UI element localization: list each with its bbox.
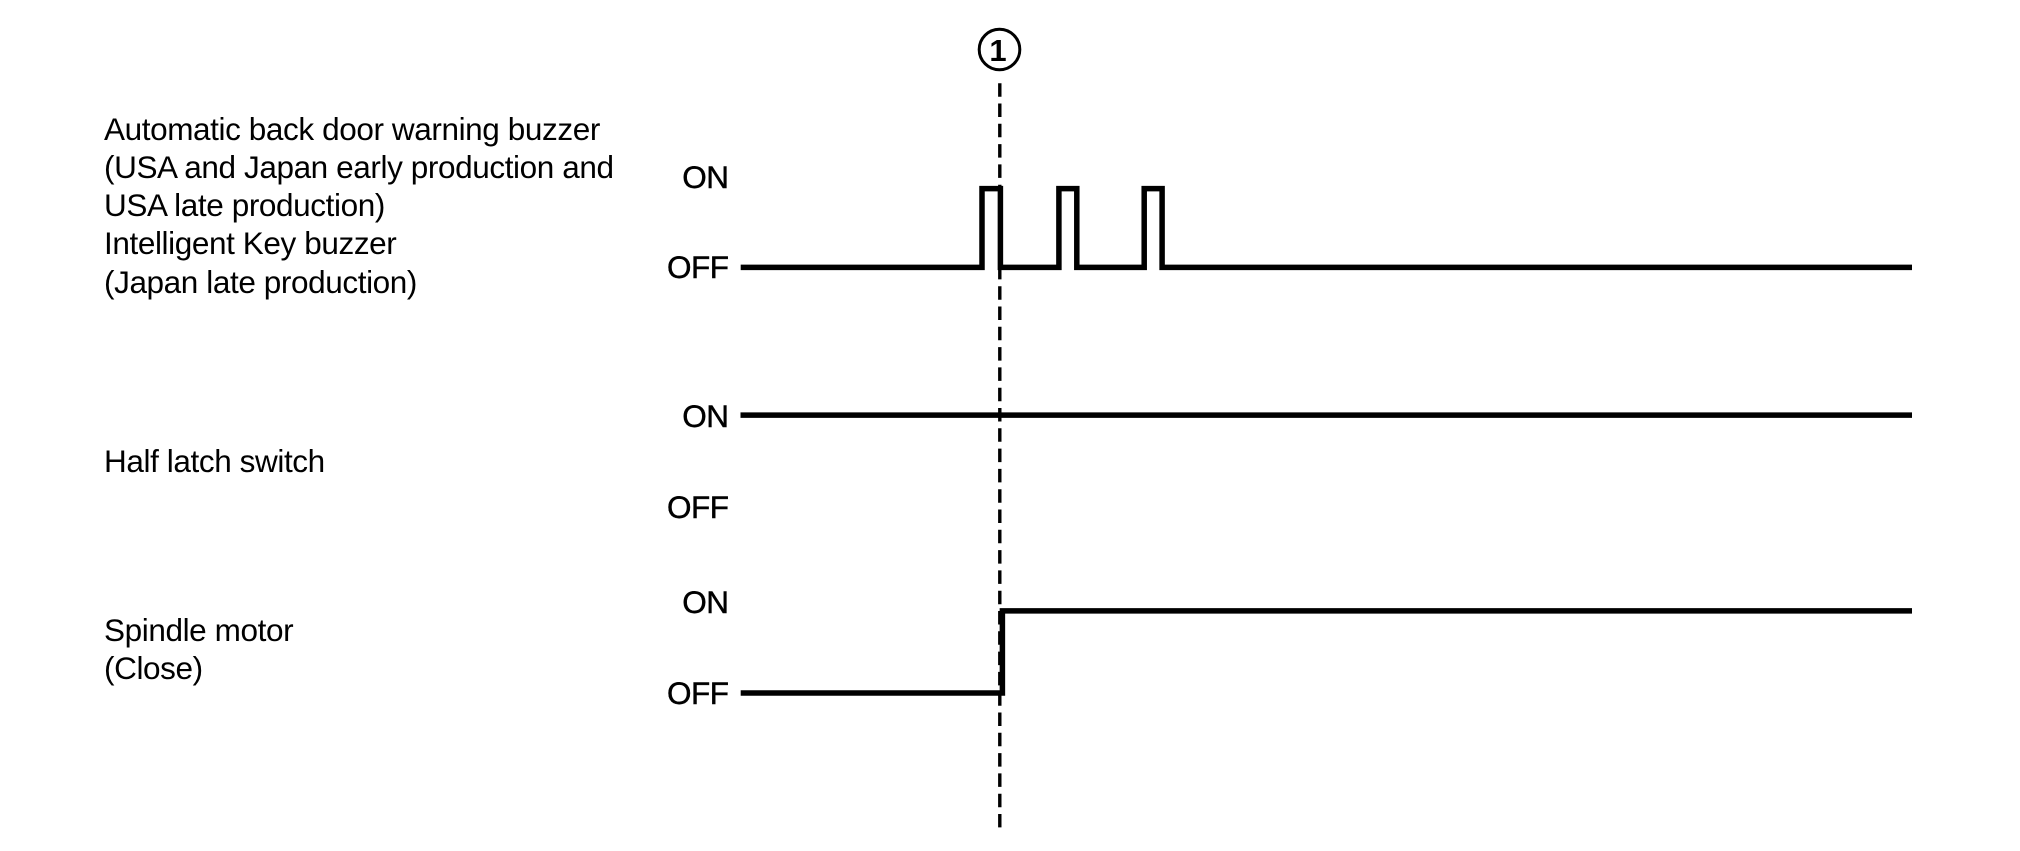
signal label: Automatic back door warning buzzer / Intelligent Key buzzer [104, 110, 614, 301]
level label: half latch switch ON [682, 397, 728, 435]
event marker circle 1 [979, 29, 1020, 70]
waveform: spindle motor trace with step at event 1 [741, 611, 1912, 693]
event number 1 [968, 35, 1028, 66]
level label: spindle motor ON [682, 583, 728, 621]
dashed timeline at event 1 [998, 83, 1001, 827]
level label: buzzer ON [682, 158, 728, 196]
waveform: half latch switch ON trace [741, 412, 1913, 418]
waveform: buzzer trace with three pulses [741, 189, 1912, 268]
signal label: Half latch switch [104, 442, 325, 480]
level label: spindle motor OFF [667, 674, 729, 712]
signal label: Spindle motor (Close) [104, 611, 293, 688]
level label: half latch switch OFF [667, 488, 729, 526]
level label: buzzer OFF [667, 248, 729, 286]
